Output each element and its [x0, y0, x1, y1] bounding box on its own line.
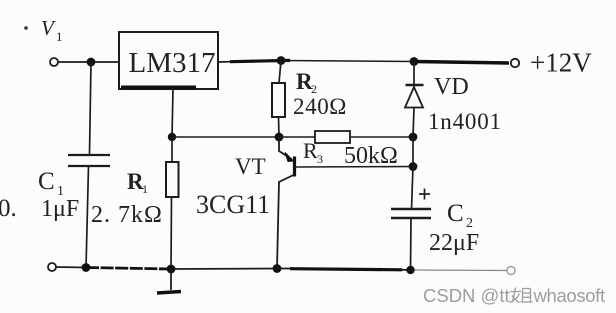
label C1 [38, 168, 64, 199]
svg-text:whaosoft: whaosoft [533, 285, 605, 306]
resistor R1 [166, 137, 179, 269]
wire C1 down to bottom rail [86, 166, 89, 268]
node junction J3 top at VD [410, 57, 419, 66]
transistor Q1 VT emitter arrow [285, 153, 294, 162]
node B junction R3 right [409, 133, 418, 142]
terminal bottom left [48, 263, 56, 271]
svg-text:3: 3 [317, 152, 323, 166]
capacitor C1 [68, 155, 110, 166]
terminal output +12V [511, 59, 519, 67]
node V1 input label [24, 16, 62, 44]
node A junction below R2 [275, 133, 284, 142]
svg-text:240Ω: 240Ω [293, 94, 347, 119]
node junction bottom C2 [406, 266, 414, 274]
label R3 [303, 138, 323, 166]
svg-text:2: 2 [466, 216, 473, 231]
node junction J2 top at R2 [277, 56, 286, 65]
svg-text:VT: VT [235, 154, 266, 179]
svg-text:2. 7kΩ: 2. 7kΩ [91, 202, 163, 228]
svg-text:3CG11: 3CG11 [196, 190, 270, 219]
node junction bottom collector [273, 264, 282, 273]
terminal bottom right [507, 267, 515, 275]
svg-text:VD: VD [434, 74, 469, 100]
wire bottom rail [56, 267, 507, 271]
svg-text:1n4001: 1n4001 [428, 109, 502, 134]
ground [157, 269, 181, 293]
svg-text:0.: 0. [0, 195, 17, 222]
node junction bottom R1 ground [167, 265, 176, 274]
svg-text:1: 1 [142, 182, 148, 196]
label R1 [127, 169, 148, 196]
wire C2 down to bottom rail [410, 218, 413, 270]
wire R3 to node B [350, 136, 413, 138]
transistor Q1 VT collector wire [277, 175, 295, 270]
svg-text:CSDN @tt: CSDN @tt [423, 285, 510, 306]
resistor R2 [272, 61, 285, 138]
node junction J1 top-left [87, 58, 96, 67]
watermark CSDN [423, 285, 605, 306]
capacitor C2 polarity plus [419, 189, 430, 200]
resistor R3 [315, 131, 350, 143]
svg-text:1μF: 1μF [41, 196, 79, 222]
node junction J11 ADJ [168, 133, 176, 141]
wire J1 down to C1 [90, 62, 92, 154]
wire LM317 ADJ pin down [172, 89, 173, 137]
svg-text:V: V [41, 16, 56, 40]
transistor Q1 VT emitter wire [279, 137, 292, 159]
wire node A to R3 [279, 136, 315, 138]
transistor Q1 VT base bar [293, 157, 296, 177]
svg-text:22μF: 22μF [429, 230, 479, 256]
node junction base right [409, 162, 418, 171]
wire input to LM317 [58, 61, 119, 63]
diode VD [405, 62, 424, 138]
svg-text:LM317: LM317 [129, 47, 216, 79]
svg-text:1: 1 [56, 29, 63, 44]
capacitor C2 [391, 209, 431, 218]
svg-text:+12V: +12V [530, 48, 592, 78]
svg-text:50kΩ: 50kΩ [344, 143, 398, 169]
wire down to C2 [412, 167, 414, 210]
label R2 [296, 69, 317, 96]
label C2 [447, 200, 473, 231]
wire ADJ to node A [172, 136, 279, 138]
terminal input left [50, 58, 58, 66]
wire base to node B column [295, 166, 413, 169]
svg-text:C: C [38, 168, 55, 195]
wire node B down to base node [412, 137, 414, 167]
node junction bottom C1 [82, 263, 91, 272]
svg-text:C: C [447, 200, 464, 227]
wire LM317 output to +12V terminal [218, 60, 509, 63]
regulator U1 LM317 [119, 32, 218, 89]
svg-text:R: R [303, 138, 318, 163]
